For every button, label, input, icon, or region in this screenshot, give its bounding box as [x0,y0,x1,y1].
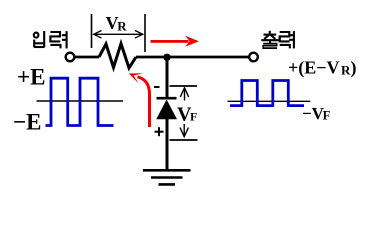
svg-text:F: F [190,110,197,124]
input terminal circle [66,53,75,62]
svg-text:−E: −E [13,110,41,135]
svg-text:R: R [341,62,351,77]
output square waveform [230,81,304,106]
VF dimension top tick [170,85,198,87]
svg-text:+(E−V: +(E−V [288,57,340,78]
svg-text:F: F [323,108,331,122]
wire terminal to resistor [75,56,99,59]
svg-text:): ) [351,57,357,78]
svg-text:R: R [117,19,127,34]
label input (Korean 입력) [34,31,67,48]
svg-text:+E: +E [17,64,45,89]
ground symbol [143,170,191,184]
VR measurement right bar [144,14,146,52]
VF dimension down arrow [180,124,188,137]
label output (Korean 출력) [261,31,294,49]
input waveform axis [37,100,124,102]
wire resistor to output terminal [136,56,249,59]
VR measurement left bar [91,14,93,48]
output terminal circle [249,53,258,62]
wire junction down to diode [166,57,169,98]
diode D1 (cathode bar + triangle) [157,97,177,100]
diode minus polarity [154,86,160,88]
resistor R (zigzag) [99,44,136,68]
junction node [163,54,170,61]
diode plus polarity [155,127,164,136]
VR dimension double arrow [94,31,144,39]
input square waveform [46,78,114,125]
red current arrow (curved, pointing upper-left) [138,77,150,127]
VF dimension bottom tick [170,139,198,141]
output waveform axis [228,100,311,102]
wire diode to ground [166,118,169,170]
svg-text:−V: −V [302,104,325,123]
red current arrow (top, pointing right) [151,36,200,47]
VF dimension up arrow [180,88,188,101]
